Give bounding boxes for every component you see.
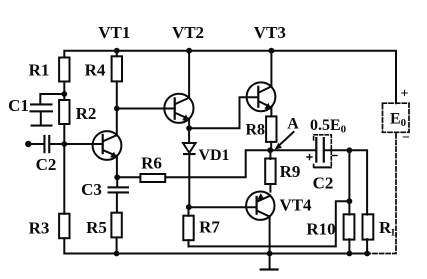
transistor VT2 [164, 94, 193, 123]
wire R10 top lead [348, 201, 350, 214]
resistor R3 [59, 214, 69, 239]
wire R4 top lead [116, 51, 118, 57]
wire R2 bottom lead [63, 124, 65, 144]
svg-text:RL: RL [379, 218, 398, 239]
node R5 ground junction [114, 251, 120, 257]
resistor R10 [344, 214, 355, 239]
svg-text:R8: R8 [245, 122, 265, 139]
wire to RL top [349, 150, 367, 214]
wire E0 negative dashed lead [367, 134, 396, 254]
wire VT2 base [117, 108, 175, 110]
transistor VT4 [246, 192, 274, 220]
resistor R7 [183, 216, 193, 241]
wire C2 right lead [325, 149, 350, 151]
resistor RL [363, 214, 374, 239]
wire VD1 top lead [188, 128, 190, 143]
node C2-R10-RL junction [347, 147, 353, 153]
svg-text:E0: E0 [390, 111, 407, 130]
resistor R5 [111, 213, 121, 238]
wire ground stub [269, 254, 271, 269]
node VT2 collector rail junction [186, 48, 192, 54]
wire VT2 collector lead [188, 51, 190, 98]
svg-text:VT2: VT2 [172, 23, 204, 42]
diode VD1 [183, 143, 196, 155]
svg-text:R1: R1 [29, 61, 50, 80]
resistor R6 [140, 174, 165, 182]
capacitor C1 [30, 103, 54, 126]
wire VT1 emitter lead [116, 156, 118, 177]
resistor R1 [59, 58, 69, 82]
svg-text:VD1: VD1 [198, 147, 229, 164]
node VT1 collector to VT2 base junction [114, 106, 120, 112]
wire bottom ground rail [64, 238, 367, 253]
wire R5 bottom lead [116, 237, 118, 253]
capacitor C3 [108, 177, 130, 212]
resistor R8 [266, 116, 276, 141]
wire R7 top lead [188, 207, 190, 216]
wire C2 right lead [50, 143, 64, 145]
wire inner bottom rail to R10 top [189, 201, 350, 246]
svg-text:C1: C1 [8, 96, 29, 115]
svg-text:C2: C2 [313, 174, 334, 193]
wire top supply rail [64, 51, 396, 104]
node RL ground junction [364, 251, 370, 257]
svg-text:C2: C2 [36, 155, 57, 174]
capacitor C2 [43, 135, 50, 153]
svg-text:R7: R7 [199, 218, 220, 237]
wire R6 right lead to node A [166, 150, 270, 177]
node VT2 emitter junction [186, 125, 192, 131]
wire VT3 collector lead [270, 51, 272, 86]
wire R8 bottom lead [270, 142, 272, 150]
node VT3 collector rail junction [269, 48, 275, 54]
battery E0 dashed box [383, 103, 410, 132]
wire VT4 base [189, 206, 256, 208]
node VD1-R7-VT4 junction [186, 204, 192, 210]
node VT1 base junction [61, 141, 67, 147]
svg-text:VT4: VT4 [279, 196, 312, 215]
resistor R4 [112, 56, 122, 81]
node R1-R2-C1 junction [61, 91, 67, 97]
svg-text:VT1: VT1 [98, 23, 130, 42]
svg-text:R10: R10 [306, 220, 335, 239]
wire R9 bottom lead [269, 184, 271, 192]
wire R1 bottom lead [63, 82, 65, 101]
wire VT3 emitter lead [270, 107, 272, 116]
svg-text:R3: R3 [29, 219, 50, 238]
svg-text:A: A [287, 116, 299, 133]
wire R7 bottom lead [188, 240, 190, 246]
wire C2 left lead [28, 143, 43, 145]
resistor R9 [265, 159, 275, 185]
wire node A to C2 [270, 149, 315, 151]
wire VT1 base [64, 143, 102, 145]
svg-text:+: + [401, 87, 409, 102]
ground [260, 268, 279, 270]
node A junction [267, 147, 273, 153]
transistor VT1 [93, 131, 122, 160]
svg-text:VT3: VT3 [254, 23, 286, 42]
node R4 top rail junction [114, 48, 120, 54]
node R10 ground junction [347, 251, 353, 257]
svg-text:−: − [402, 131, 410, 146]
svg-text:R4: R4 [85, 61, 106, 80]
transistor VT3 [247, 82, 276, 111]
node VT1 emitter junction [114, 174, 120, 180]
wire VD1 bottom lead [188, 155, 190, 207]
svg-text:R2: R2 [76, 104, 97, 123]
wire RL bottom lead [366, 239, 368, 253]
wire R3 top lead [63, 144, 65, 214]
wire VT1 collector to R4 [116, 81, 118, 135]
wire R10 bottom lead [348, 239, 350, 253]
wire C1 top connection [40, 94, 64, 103]
wire VT2 emitter to VT3 base [189, 97, 257, 128]
wire down to R10 junction [348, 150, 350, 201]
svg-text:R5: R5 [86, 218, 107, 237]
wire R6 left lead [117, 176, 139, 178]
wire VT4 collector lead [269, 216, 271, 253]
svg-text:R6: R6 [141, 154, 162, 173]
node R10 top junction [347, 198, 353, 204]
svg-text:0.5E0: 0.5E0 [310, 117, 347, 136]
wire R9 top lead [269, 150, 271, 159]
node VT4 collector ground junction [267, 251, 273, 257]
node C2 input terminal [25, 141, 31, 147]
capacitor C2 output [307, 135, 337, 168]
node A arrow pointer [275, 132, 294, 150]
svg-text:R9: R9 [280, 162, 301, 181]
wire VT2 emitter lead [188, 119, 190, 128]
resistor R2 [59, 100, 69, 124]
svg-text:C3: C3 [81, 180, 102, 199]
